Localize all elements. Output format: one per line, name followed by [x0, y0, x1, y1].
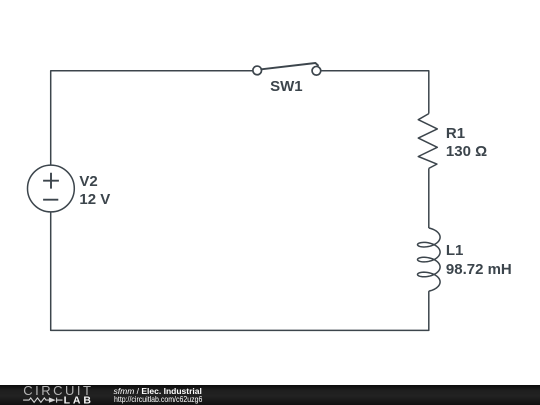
svg-text:LAB: LAB	[64, 394, 94, 405]
